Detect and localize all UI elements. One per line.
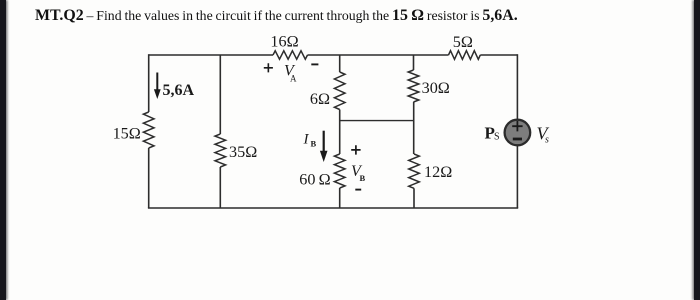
wire branch-30/12 middle (30-ohm through middle node to 12-ohm) xyxy=(413,102,415,154)
svg-text:35Ω: 35Ω xyxy=(229,143,257,161)
wire branch-60 lower (60-ohm to bottom rail) xyxy=(339,188,341,208)
svg-text:6Ω: 6Ω xyxy=(310,90,330,108)
svg-text:5,6A: 5,6A xyxy=(163,82,195,99)
voltage source PS (circle with + over -) xyxy=(505,120,531,146)
resistor 12 ohm (vertical) xyxy=(409,154,453,188)
wire branch-35 lower (35-ohm to bottom rail) xyxy=(219,167,221,208)
wire top-right segment (right of 5-ohm to corner) xyxy=(480,54,517,56)
svg-text:15Ω: 15Ω xyxy=(113,125,141,143)
wire branch-30 upper (top rail to 30-ohm) xyxy=(413,55,415,70)
label +V_B- for 60 ohm xyxy=(351,145,366,189)
current source arrow 5,6A xyxy=(154,73,195,100)
wire left rail lower (below 15-ohm) xyxy=(148,148,150,208)
svg-text:B: B xyxy=(311,139,317,149)
resistor 16 ohm (top, horizontal) xyxy=(270,32,307,59)
wire branch-6/60 middle (6-ohm through middle node to 60-ohm) xyxy=(339,110,341,155)
wire top-middle segment (between 16-ohm and 5-ohm) xyxy=(308,54,449,56)
wire branch-12 lower (12-ohm to bottom rail) xyxy=(413,188,415,208)
wire branch-35 upper (top rail down to 35-ohm) xyxy=(219,55,221,134)
current arrow I_B xyxy=(303,131,328,162)
svg-text:16Ω: 16Ω xyxy=(270,32,298,50)
resistor 35 ohm (vertical) xyxy=(215,134,257,167)
svg-text:B: B xyxy=(360,173,366,183)
resistor 30 ohm (vertical) xyxy=(408,70,450,102)
resistor 60 ohm (vertical) xyxy=(299,154,345,188)
wire bottom rail xyxy=(148,207,518,209)
label +V_A- for 16 ohm xyxy=(264,63,319,84)
wire right rail upper (top corner to source) xyxy=(516,54,518,119)
title text xyxy=(35,7,595,25)
resistor 6 ohm (vertical) xyxy=(310,72,345,110)
wire branch-6 upper (top rail to 6-ohm) xyxy=(339,55,341,72)
left edge black bar xyxy=(0,0,6,300)
wire middle rung (node between 6-ohm/60-ohm and 30-ohm/12-ohm) xyxy=(340,120,415,122)
svg-text:60 Ω: 60 Ω xyxy=(299,170,330,188)
resistor 15 ohm (left rail, vertical) xyxy=(113,112,154,148)
right edge black bar xyxy=(694,0,700,300)
svg-text:s: s xyxy=(545,135,549,146)
svg-text:A: A xyxy=(290,74,297,84)
wire right rail lower (source to bottom) xyxy=(516,146,518,208)
svg-text:30Ω: 30Ω xyxy=(422,79,450,97)
wire left rail upper (above 15-ohm) xyxy=(148,54,150,112)
label V_s right of source xyxy=(537,124,550,146)
wire top-left segment (top rail, left of 16-ohm) xyxy=(149,54,273,56)
resistor 5 ohm (top right, horizontal) xyxy=(449,33,481,59)
svg-text:12Ω: 12Ω xyxy=(424,163,452,181)
svg-text:5Ω: 5Ω xyxy=(453,33,473,51)
label P_S left of source xyxy=(485,124,500,143)
svg-text:S: S xyxy=(494,132,500,143)
svg-text:I: I xyxy=(303,132,310,148)
